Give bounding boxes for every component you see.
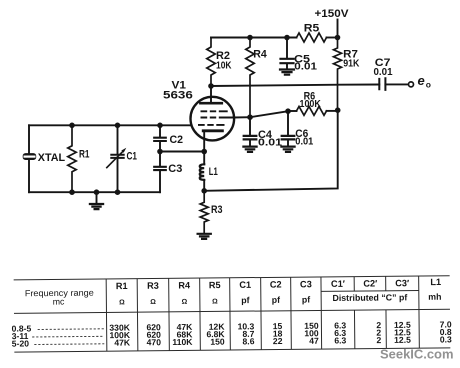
svg-text:R1: R1 [116,281,128,291]
svg-text:2: 2 [376,335,381,345]
wire left branch upper [28,125,30,153]
svg-text:100K: 100K [300,99,322,110]
svg-text:C1: C1 [239,280,251,290]
resistor R4 [246,38,254,118]
ground main [96,192,98,203]
svg-text:C1: C1 [127,151,138,163]
table top border [14,276,450,280]
tube V1 envelope [191,97,235,141]
svg-text:0.01: 0.01 [294,61,317,72]
inductor L1 [203,152,205,165]
wire feedback line [204,110,338,191]
node ground stem [94,189,100,195]
table header text [25,277,442,307]
wire plate lead [210,86,212,103]
capacitor C1 variable [117,125,119,153]
wire +150V lead [337,20,339,38]
svg-text:C1′: C1′ [331,279,346,289]
capacitor C2 [159,125,161,136]
svg-text:R5: R5 [304,22,320,34]
svg-text:o: o [426,79,431,89]
resistor R1 [68,125,76,192]
wire top rail [211,37,297,39]
svg-text:R1: R1 [79,149,90,161]
wire left branch lower [28,160,30,192]
svg-text:C3: C3 [168,163,182,175]
svg-text:L1: L1 [430,277,441,287]
tube V1 grid 1 dashes [198,124,225,126]
svg-text:C2: C2 [170,134,184,146]
wire screen line [250,111,288,117]
svg-text:47: 47 [309,336,319,346]
svg-text:R4: R4 [253,48,267,60]
wire R5 to supply junction [327,37,338,39]
svg-text:R4: R4 [178,280,191,290]
resistor R7 [334,38,342,111]
table distributed sub rule [321,289,419,292]
svg-text:C2′: C2′ [363,278,378,288]
tube V1 grid 3 dashes [201,110,228,112]
svg-text:R5: R5 [209,280,221,290]
wire C6 to R6 [288,110,297,112]
wire C2 to cathode [160,151,204,153]
svg-text:470: 470 [147,337,162,347]
crystal XTAL [23,153,37,160]
ground R3 [198,234,211,239]
svg-text:mc: mc [53,296,65,306]
capacitor C6 [287,111,289,135]
svg-text:5-20: 5-20 [12,338,30,348]
tube V1 grid 2 dashes [201,117,234,119]
svg-text:Ω: Ω [182,299,188,306]
svg-text:+150V: +150V [315,8,350,20]
node C2 top [157,123,163,129]
wire C7 to output terminal [385,83,408,85]
svg-text:150: 150 [210,337,225,347]
node L1 bottom [201,188,207,194]
tube V1 plate [200,102,221,105]
wire grid line [29,124,192,126]
node C1 top [115,123,121,129]
wire grid2 to screen node [234,116,250,118]
capacitor C5 [286,38,288,58]
node screen junction [247,114,253,120]
svg-text:Ω: Ω [150,299,156,306]
ground C6 [281,147,294,152]
node R4 top [247,35,253,41]
node C2 bottom [157,149,163,155]
svg-text:6.3: 6.3 [334,335,346,345]
svg-text:5636: 5636 [163,90,193,102]
resistor R3 [200,191,208,233]
table column separators [106,276,419,351]
ground C5 [280,70,294,75]
node R1 top [69,123,75,129]
svg-text:Distributed “C” pf: Distributed “C” pf [332,292,407,303]
svg-text:R3: R3 [147,281,159,291]
svg-text:0.01: 0.01 [258,137,283,148]
component value table [11,276,452,352]
node C5 top [284,35,290,41]
svg-text:0.3: 0.3 [440,334,452,344]
svg-text:C3′: C3′ [395,278,410,288]
capacitor C7 [379,78,385,90]
node output terminal eo [409,82,414,87]
table header rule [14,309,450,313]
svg-text:0.01: 0.01 [374,67,393,78]
wire plate output line [211,85,379,87]
svg-text:Ω: Ω [212,298,218,305]
svg-text:8.6: 8.6 [242,336,254,346]
svg-text:L1: L1 [209,166,218,178]
table bottom border [14,348,450,352]
svg-text:pf: pf [241,295,249,305]
svg-text:47K: 47K [114,337,131,347]
svg-text:110K: 110K [172,337,193,347]
wire cathode lead [203,131,205,152]
svg-text:12.5: 12.5 [394,335,411,345]
node R1 bottom [69,189,75,195]
svg-text:0.01: 0.01 [295,137,313,148]
resistor R5 [297,33,327,42]
wire bottom rail [29,191,160,193]
table frequency rows [12,323,32,348]
node feedback junction [335,107,341,113]
node C1 bottom [115,189,121,195]
svg-text:e: e [418,73,425,88]
svg-text:Ω: Ω [119,299,125,306]
svg-text:91K: 91K [343,59,360,70]
capacitor C3 [159,152,161,166]
ground C4 [243,147,256,152]
table data values [109,319,452,347]
node C6 top [285,108,291,114]
node plate junction [208,83,214,89]
svg-text:pf: pf [272,295,280,305]
wire R6 to feedback node [327,110,338,112]
resistor R6 [297,107,327,116]
svg-text:R3: R3 [211,204,223,216]
tube V1 cathode [203,129,222,132]
svg-text:C2: C2 [270,280,282,290]
node cathode junction [201,149,207,155]
svg-text:mh: mh [428,292,441,302]
node supply junction [335,35,341,41]
capacitor C4 [249,117,251,135]
resistor R2 [207,38,215,87]
svg-text:10K: 10K [216,61,232,72]
svg-text:22: 22 [273,336,283,346]
svg-text:XTAL: XTAL [38,152,66,164]
svg-text:pf: pf [302,295,310,305]
svg-text:SeekIC.com: SeekIC.com [380,347,454,361]
svg-text:C3: C3 [300,279,312,289]
